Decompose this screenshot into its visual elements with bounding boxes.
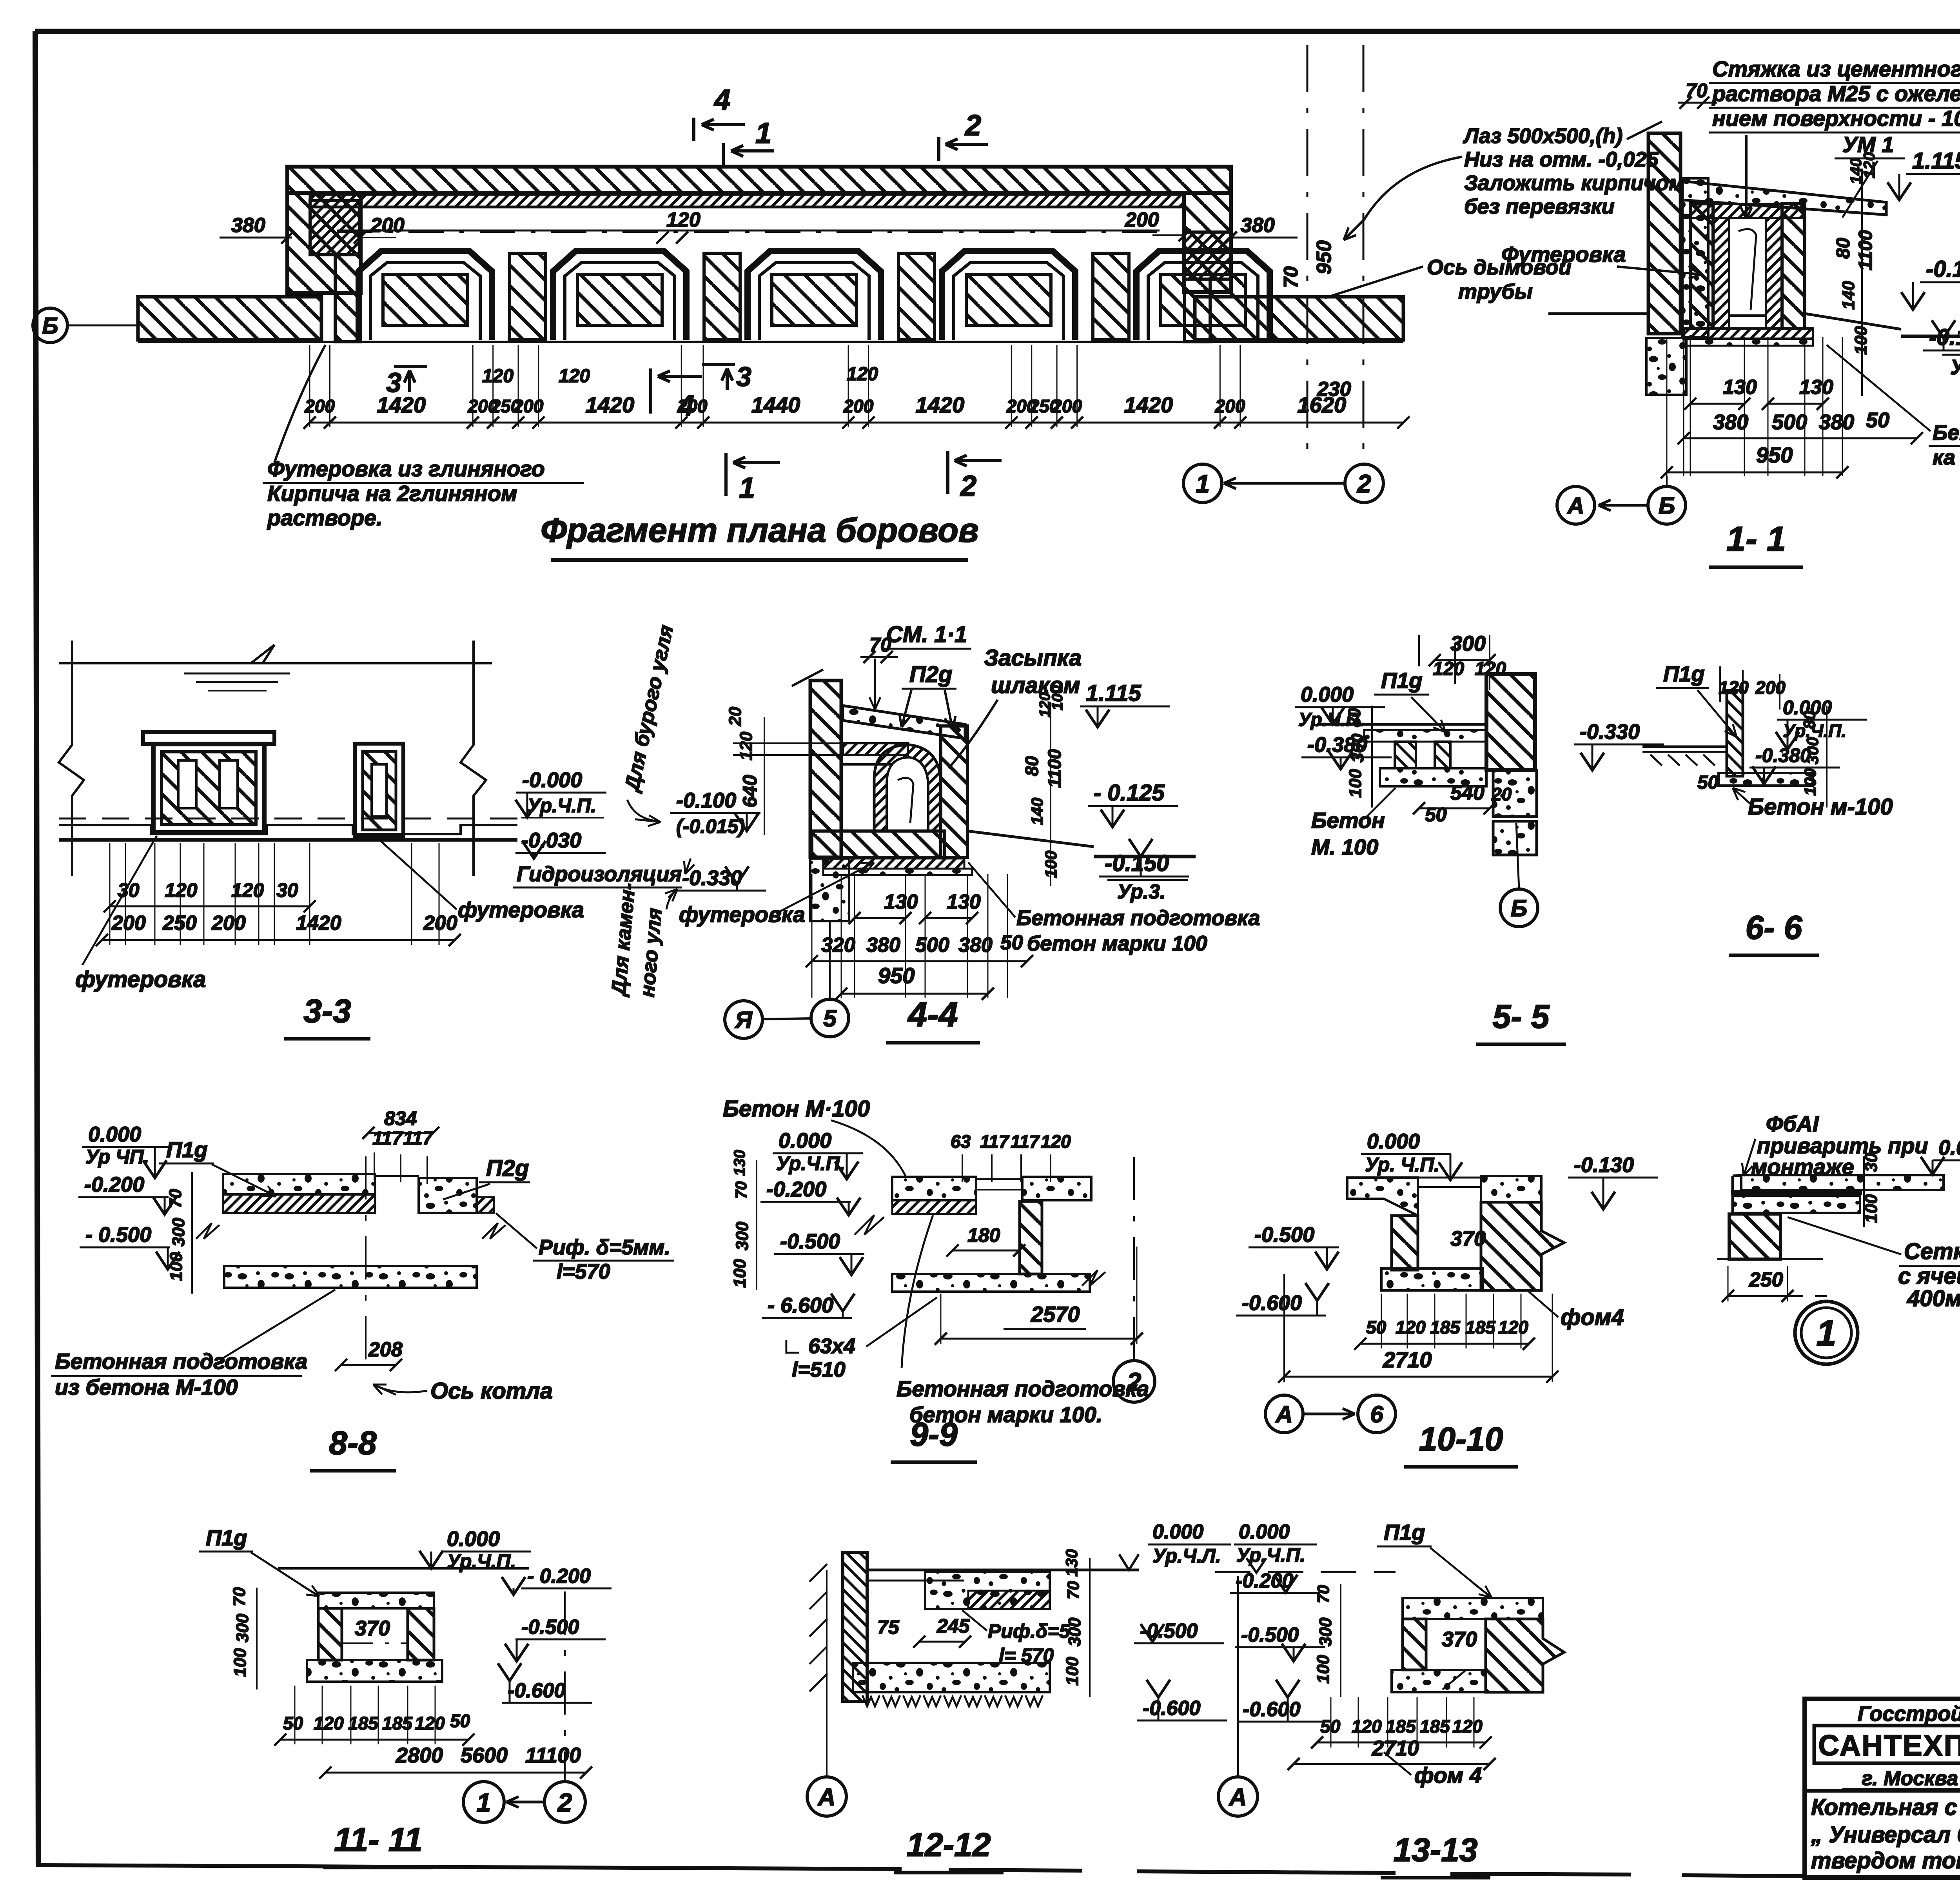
plan: pillar 1 — [510, 253, 546, 340]
svg-text:„ Универсал 6м". на: „ Универсал 6м". на — [1811, 1822, 1960, 1847]
svg-text:120: 120 — [847, 364, 878, 385]
plan: center dash line — [337, 231, 1168, 233]
svg-text:1: 1 — [477, 1788, 491, 1817]
svg-text:1100: 1100 — [1855, 230, 1876, 270]
svg-text:- 0.200: - 0.200 — [527, 1565, 591, 1588]
svg-text:футеровка: футеровка — [75, 967, 206, 992]
svg-text:30: 30 — [1862, 1153, 1881, 1172]
9-9: bottom band — [892, 1274, 1090, 1292]
plan: top slab left leg — [287, 193, 361, 293]
svg-text:80: 80 — [1833, 238, 1854, 259]
13-13: top band — [1403, 1598, 1543, 1619]
detail 1: wall block — [1729, 1214, 1780, 1259]
8-8: kettle axis line — [365, 1156, 367, 1364]
svg-text:370: 370 — [1442, 1628, 1477, 1651]
5-5: under slab — [1380, 768, 1486, 786]
svg-text:1: 1 — [755, 117, 771, 149]
1-1: vertical dim chain — [1861, 169, 1863, 396]
svg-text:120: 120 — [1498, 1317, 1528, 1337]
12-12: top slab — [925, 1572, 1050, 1609]
svg-text:50: 50 — [1425, 804, 1447, 826]
svg-text:380: 380 — [1819, 410, 1854, 434]
svg-text:117: 117 — [372, 1128, 403, 1149]
svg-text:- 0.500: - 0.500 — [85, 1223, 151, 1247]
svg-text:300: 300 — [169, 1218, 188, 1247]
svg-text:300: 300 — [1348, 733, 1367, 762]
svg-text:370: 370 — [355, 1617, 390, 1640]
svg-text:Риф.δ=5: Риф.δ=5 — [988, 1620, 1071, 1642]
svg-text:120: 120 — [1861, 152, 1878, 178]
svg-text:120: 120 — [1352, 1716, 1382, 1737]
plan: corner pier left (dense hatch) — [310, 201, 360, 255]
svg-text:120: 120 — [1041, 1131, 1071, 1152]
9-9: left vertical chain — [756, 1160, 757, 1290]
svg-text:100: 100 — [730, 1259, 750, 1288]
6-6: base slab — [1719, 773, 1813, 786]
svg-text:0.000: 0.000 — [779, 1129, 831, 1152]
svg-text:80: 80 — [1022, 756, 1042, 776]
svg-text:50: 50 — [283, 1713, 303, 1733]
svg-text:САНТЕХПРОЕКТ: САНТЕХПРОЕКТ — [1818, 1729, 1960, 1762]
6-6: right vertical chain — [1826, 706, 1828, 808]
detail 1: circle 1 — [1795, 1301, 1858, 1364]
3-3: big chamber box — [143, 732, 274, 744]
svg-text:раствора М25 с ожелезне-: раствора М25 с ожелезне- — [1711, 81, 1960, 106]
plan: section mark 1 top — [722, 143, 725, 167]
border frame — [35, 29, 1960, 34]
svg-text:117: 117 — [980, 1131, 1010, 1152]
svg-text:300: 300 — [1803, 737, 1822, 764]
svg-text:Бетонная подготовка: Бетонная подготовка — [1016, 906, 1260, 930]
svg-text:Футеровка из глиняного: Футеровка из глиняного — [267, 456, 545, 481]
12-12: wall with ground hatch — [843, 1552, 867, 1701]
4-4: right vertical dim chain — [1050, 702, 1051, 886]
svg-text:Я: Я — [734, 1007, 753, 1033]
plan: flue block 4 — [942, 251, 1075, 340]
svg-text:твердом топливе.: твердом топливе. — [1811, 1848, 1960, 1873]
svg-text:117: 117 — [1011, 1131, 1040, 1152]
svg-text:-0.500: -0.500 — [1241, 1624, 1299, 1646]
svg-text:12-12: 12-12 — [907, 1826, 991, 1863]
svg-text:Кирпича на 2глиняном: Кирпича на 2глиняном — [267, 481, 517, 506]
svg-text:200: 200 — [211, 912, 246, 935]
plan: flue block 2 — [553, 251, 686, 340]
svg-text:75: 75 — [877, 1616, 900, 1638]
svg-text:Ур.Ч.П.: Ур.Ч.П. — [1236, 1544, 1305, 1566]
10-10: top left slab — [1347, 1178, 1418, 1216]
svg-text:120: 120 — [482, 366, 514, 387]
svg-text:100: 100 — [1851, 326, 1871, 355]
svg-text:1420: 1420 — [377, 392, 426, 417]
detail 1: right vertical chain — [1863, 1156, 1865, 1227]
svg-text:Риф. δ=5мм.: Риф. δ=5мм. — [539, 1236, 670, 1259]
svg-text:80: 80 — [1800, 711, 1818, 729]
svg-text:СМ. 1·1: СМ. 1·1 — [886, 622, 967, 647]
5-5: big wall — [1486, 674, 1535, 770]
svg-text:1: 1 — [1196, 470, 1210, 498]
svg-text:20: 20 — [1491, 784, 1512, 804]
svg-text:9-9: 9-9 — [910, 1416, 958, 1453]
svg-text:2710: 2710 — [1372, 1737, 1419, 1760]
svg-text:120: 120 — [666, 209, 701, 231]
svg-text:130: 130 — [1723, 376, 1757, 399]
svg-text:100: 100 — [167, 1252, 186, 1281]
svg-text:П1g: П1g — [1663, 661, 1705, 686]
svg-text:640: 640 — [739, 775, 761, 808]
svg-text:-0.125: -0.125 — [1926, 256, 1960, 282]
svg-text:400мм. По всей длине канала: 400мм. По всей длине канала — [1907, 1286, 1960, 1311]
svg-text:Ур.3: Ур.3 — [1950, 356, 1960, 379]
12-12: top lines — [867, 1569, 1139, 1572]
svg-text:70: 70 — [1064, 1581, 1082, 1599]
svg-text:1440: 1440 — [751, 392, 800, 417]
svg-text:3-3: 3-3 — [303, 993, 351, 1029]
svg-text:-0.500: -0.500 — [780, 1230, 840, 1253]
3-3: small chamber box — [355, 744, 403, 837]
13-13: bottom band — [1392, 1670, 1486, 1692]
4-4: left dim chain — [764, 717, 765, 835]
plan: pillar 4 — [1093, 253, 1129, 340]
9-9: pier — [1020, 1201, 1042, 1274]
8-8: top slab left part — [223, 1174, 375, 1194]
plan: left wall strip of axis Б — [138, 297, 321, 340]
svg-text:100: 100 — [1049, 686, 1066, 710]
4-4: ground lines right — [967, 831, 1094, 847]
8-8: bottom slab band — [224, 1266, 477, 1288]
svg-text:370: 370 — [1450, 1227, 1486, 1250]
4-4: wall — [810, 681, 841, 857]
svg-text:250: 250 — [162, 912, 197, 935]
svg-text:10-10: 10-10 — [1419, 1421, 1503, 1457]
svg-text:1: 1 — [1816, 1313, 1836, 1353]
svg-text:шлаком: шлаком — [991, 673, 1080, 698]
svg-text:- 6.600: - 6.600 — [768, 1294, 833, 1317]
svg-text:П1g: П1g — [166, 1137, 208, 1162]
11-11: bottom band — [307, 1660, 442, 1682]
svg-text:Засыпка: Засыпка — [984, 645, 1082, 671]
svg-text:2: 2 — [964, 109, 981, 142]
svg-text:100: 100 — [1862, 1194, 1881, 1223]
svg-text:30: 30 — [276, 879, 298, 901]
svg-text:футеровка: футеровка — [458, 897, 584, 922]
svg-text:185: 185 — [1465, 1317, 1496, 1337]
svg-text:-0.100: -0.100 — [676, 789, 736, 812]
svg-text:80: 80 — [1345, 708, 1364, 727]
svg-text:Бетон М·100: Бетон М·100 — [723, 1096, 870, 1121]
10-10: right mass — [1481, 1202, 1564, 1290]
4-4: underslab strip — [823, 858, 964, 869]
4-4: arch lining — [874, 745, 941, 831]
svg-text:100: 100 — [1314, 1655, 1333, 1684]
svg-text:50: 50 — [1697, 772, 1719, 793]
svg-text:Ур.Ч.Л.: Ур.Ч.Л. — [1152, 1545, 1221, 1567]
svg-text:300: 300 — [233, 1613, 252, 1642]
svg-text:185: 185 — [1420, 1716, 1450, 1737]
svg-text:4-4: 4-4 — [907, 995, 958, 1034]
title block frame — [1805, 1699, 1960, 1878]
svg-text:1- 1: 1- 1 — [1726, 519, 1786, 558]
1-1: flue lining — [1713, 218, 1729, 328]
svg-text:140: 140 — [1028, 798, 1046, 825]
svg-text:Бетон м-100: Бетон м-100 — [1748, 794, 1893, 820]
svg-text:2: 2 — [557, 1788, 572, 1817]
svg-text:0.000: 0.000 — [88, 1123, 141, 1146]
svg-text:245: 245 — [936, 1615, 970, 1637]
1-1: bottom slab — [1684, 328, 1813, 339]
svg-text:1100: 1100 — [1044, 749, 1065, 788]
plan: section mark 4 top — [692, 118, 695, 141]
svg-text:950: 950 — [1313, 240, 1336, 274]
10-10: right slab — [1481, 1176, 1541, 1202]
plan: inner slab edge line — [337, 230, 1160, 232]
13-13: right mass — [1486, 1619, 1564, 1692]
plan: left leg lower column — [335, 255, 361, 342]
svg-text:Лаз 500х500,(h): Лаз 500х500,(h) — [1463, 124, 1623, 148]
plan: flue block 5 — [1136, 251, 1270, 340]
svg-text:без перевязки: без перевязки — [1464, 195, 1615, 218]
12-12: bottom band — [853, 1663, 1050, 1692]
svg-text:380: 380 — [866, 934, 900, 956]
svg-text:0.000: 0.000 — [1301, 683, 1354, 706]
12-12: right vertical chain — [1089, 1558, 1091, 1697]
svg-text:5- 5: 5- 5 — [1493, 998, 1550, 1035]
5-5: circle Б — [1500, 889, 1538, 927]
svg-text:Бетонная подготовка: Бетонная подготовка — [897, 1376, 1149, 1401]
plan: section mark 1 bottom — [724, 453, 728, 496]
svg-text:Б: Б — [1659, 493, 1675, 519]
svg-text:П1g: П1g — [1381, 668, 1423, 693]
svg-text:2: 2 — [1357, 470, 1371, 498]
svg-text:П2g: П2g — [909, 662, 952, 687]
1-1: chimney wall — [1648, 133, 1681, 334]
svg-text:1.115: 1.115 — [1912, 148, 1960, 174]
svg-text:2: 2 — [1126, 1367, 1142, 1396]
svg-text:120: 120 — [165, 879, 198, 901]
svg-text:фом 4: фом 4 — [1414, 1763, 1482, 1787]
svg-text:Госстрой СССР: Госстрой СССР — [1858, 1702, 1960, 1726]
svg-text:П2g: П2g — [486, 1156, 529, 1181]
4-4: sloped screed — [843, 706, 965, 739]
svg-text:200: 200 — [1755, 677, 1786, 698]
svg-text:540: 540 — [1450, 782, 1485, 804]
11-11: top band — [318, 1593, 434, 1608]
svg-text:380: 380 — [1713, 410, 1748, 434]
svg-text:-0.030: -0.030 — [521, 829, 581, 852]
12-12: ground tufts — [862, 1695, 1043, 1706]
svg-text:l=510: l=510 — [792, 1358, 846, 1381]
svg-text:растворе.: растворе. — [267, 505, 383, 530]
1-1: foundation block — [1646, 338, 1686, 395]
svg-text:П1g: П1g — [206, 1525, 247, 1550]
detail 1: channel slab — [1741, 1175, 1944, 1190]
svg-text:6: 6 — [1370, 1401, 1383, 1428]
svg-text:-0.600: -0.600 — [508, 1679, 566, 1702]
svg-text:8-8: 8-8 — [329, 1425, 377, 1461]
svg-text:с ячейками 100х100 ширчной: с ячейками 100х100 ширчной — [1898, 1263, 1960, 1289]
svg-text:0.000: 0.000 — [1938, 1136, 1960, 1160]
svg-text:Ур.Ч.П.: Ур.Ч.П. — [776, 1152, 845, 1174]
svg-text:100: 100 — [1801, 768, 1819, 796]
svg-text:А: А — [1275, 1401, 1292, 1428]
svg-text:0.000: 0.000 — [447, 1527, 500, 1551]
svg-text:футеровка: футеровка — [679, 902, 805, 927]
plan: section mark 2 top — [937, 137, 940, 161]
svg-text:2800: 2800 — [396, 1744, 443, 1767]
plan: section mark 2 bottom — [946, 451, 949, 494]
plan: flue block 1 — [359, 251, 492, 340]
1-1: flue opening — [1729, 218, 1766, 316]
svg-text:120: 120 — [314, 1713, 344, 1733]
svg-text:1.115: 1.115 — [1086, 681, 1142, 706]
svg-text:130: 130 — [884, 891, 918, 913]
svg-text:320: 320 — [821, 934, 855, 956]
svg-text:3: 3 — [736, 361, 751, 392]
plan: section mark 3 right — [702, 363, 735, 366]
12-12: circle А — [807, 1777, 846, 1816]
svg-text:117: 117 — [403, 1128, 434, 1149]
svg-text:г. Москва 1971г.: г. Москва 1971г. — [1862, 1767, 1960, 1790]
plan: witness lines under blocks — [309, 345, 310, 427]
plan: right wall strip of axis Б — [1195, 297, 1403, 340]
svg-text:- 0.125: - 0.125 — [1094, 780, 1165, 806]
svg-text:-0.500: -0.500 — [1254, 1223, 1314, 1247]
4-4: duct floor — [812, 831, 945, 857]
svg-text:нием поверхности - 10÷50: нием поверхности - 10÷50 — [1712, 106, 1960, 131]
svg-text:Ур.3.: Ур.3. — [1117, 880, 1166, 903]
svg-text:2710: 2710 — [1383, 1347, 1432, 1372]
1-1: sloped screed — [1682, 181, 1886, 215]
5-5: small piers — [1395, 742, 1416, 768]
svg-text:100: 100 — [1346, 769, 1365, 798]
svg-text:300: 300 — [733, 1221, 752, 1250]
svg-text:20: 20 — [726, 707, 745, 726]
svg-text:-0.130: -0.130 — [1574, 1153, 1634, 1177]
svg-text:0.000: 0.000 — [1152, 1521, 1203, 1543]
10-10: bottom band — [1381, 1268, 1483, 1290]
4-4: foundation column — [810, 858, 849, 921]
11-11: circles 1 2 — [463, 1782, 504, 1822]
svg-text:М. 100: М. 100 — [1311, 835, 1378, 859]
8-8: left vertical chain — [191, 1172, 193, 1294]
svg-text:Сетка из арматуры Ф8АІ,: Сетка из арматуры Ф8АІ, — [1904, 1239, 1960, 1264]
svg-text:70: 70 — [230, 1587, 249, 1606]
svg-text:2570: 2570 — [1031, 1302, 1080, 1327]
svg-text:бетон марки 100: бетон марки 100 — [1027, 932, 1207, 955]
svg-text:Низ на отм. -0,025: Низ на отм. -0,025 — [1464, 148, 1659, 171]
8-8: break marks — [196, 1223, 220, 1239]
svg-text:4: 4 — [713, 83, 730, 116]
svg-text:13-13: 13-13 — [1394, 1831, 1478, 1868]
svg-text:-0.600: -0.600 — [1143, 1697, 1201, 1720]
svg-text:70: 70 — [1314, 1585, 1332, 1603]
1-1: witness verticals — [1666, 337, 1668, 476]
svg-text:70: 70 — [733, 1181, 750, 1199]
plan: axis circle Б — [33, 308, 67, 343]
9-9: top slab — [892, 1177, 976, 1200]
13-13: left vertical chain — [1340, 1584, 1341, 1697]
svg-text:185: 185 — [1386, 1716, 1416, 1737]
svg-text:180: 180 — [967, 1224, 1000, 1246]
svg-text:120: 120 — [1452, 1716, 1483, 1737]
3-3: top water line — [59, 662, 492, 664]
svg-text:ка бетон марки·100.: ка бетон марки·100. — [1933, 446, 1960, 469]
svg-text:Б: Б — [42, 313, 58, 339]
svg-text:140: 140 — [1839, 281, 1858, 310]
svg-text:Гидроизоляция: Гидроизоляция — [517, 862, 682, 886]
svg-text:Ось котла: Ось котла — [430, 1378, 553, 1404]
1-1: underslab strip — [1684, 339, 1813, 346]
9-9: circle 2 — [1113, 1361, 1155, 1402]
10-10: left pier — [1392, 1216, 1418, 1270]
svg-text:100: 100 — [1042, 851, 1060, 878]
10-10: channel top lines — [1418, 1177, 1481, 1179]
plan: flue block 3 — [748, 251, 881, 340]
svg-text:50: 50 — [1366, 1317, 1387, 1337]
svg-text:200: 200 — [423, 912, 457, 935]
1-1: flue top band — [1690, 204, 1805, 218]
plan: pillar 3 — [898, 253, 935, 340]
5-5: concrete column — [1493, 770, 1537, 817]
svg-text:0.000: 0.000 — [1367, 1130, 1420, 1153]
11-11: left vertical chain — [256, 1588, 258, 1689]
svg-text:-0.500: -0.500 — [521, 1616, 579, 1639]
svg-text:70: 70 — [1280, 266, 1302, 288]
svg-text:130: 130 — [947, 891, 981, 913]
svg-text:11- 11: 11- 11 — [334, 1821, 423, 1858]
svg-text:50: 50 — [1000, 931, 1023, 954]
8-8: top slab right part — [419, 1178, 477, 1213]
plan: pillar 2 — [704, 253, 740, 340]
10-10: axis circles — [1265, 1395, 1303, 1433]
svg-text:Футеровка: Футеровка — [1501, 242, 1626, 267]
svg-text:1: 1 — [739, 472, 755, 504]
plan: axis line — [138, 341, 1403, 343]
svg-text:-0.500: -0.500 — [1140, 1620, 1198, 1642]
5-5: floor slab — [1317, 723, 1486, 726]
svg-text:100: 100 — [230, 1648, 250, 1677]
svg-text:Фрагмент плана боровов: Фрагмент плана боровов — [541, 512, 979, 549]
4-4: right outer wall — [941, 726, 967, 857]
plan: section mark 4 bottom — [649, 368, 652, 414]
svg-text:200: 200 — [111, 912, 146, 935]
svg-text:-0.200: -0.200 — [766, 1178, 826, 1201]
svg-text:Бетон: Бетон — [1311, 808, 1385, 833]
svg-text:1420: 1420 — [586, 392, 635, 417]
5-5: left vertical chain — [1371, 706, 1373, 808]
svg-text:120: 120 — [737, 731, 756, 760]
svg-text:5: 5 — [823, 1005, 837, 1032]
svg-text:200: 200 — [370, 214, 405, 237]
1-1: flue duct outer walls — [1690, 204, 1713, 328]
svg-text:2: 2 — [960, 470, 976, 502]
svg-text:300: 300 — [1316, 1617, 1335, 1646]
svg-text:120: 120 — [415, 1713, 445, 1733]
svg-text:950: 950 — [1756, 443, 1793, 467]
svg-text:l=570: l=570 — [557, 1260, 610, 1283]
svg-text:1420: 1420 — [1124, 392, 1173, 417]
svg-text:63: 63 — [951, 1131, 971, 1152]
11-11: dash axis to circle 2 — [564, 1591, 566, 1780]
svg-text:А: А — [1566, 493, 1584, 519]
svg-text:П1g: П1g — [1384, 1520, 1425, 1544]
svg-text:Бетонная подготов-: Бетонная подготов- — [1933, 421, 1960, 445]
svg-text:208: 208 — [368, 1338, 403, 1361]
svg-text:-0.380: -0.380 — [1755, 744, 1811, 766]
6-6: ground at left — [1642, 746, 1727, 748]
svg-text:1420: 1420 — [296, 912, 341, 935]
svg-text:Ур ЧП.: Ур ЧП. — [85, 1146, 149, 1168]
4-4: upper thin band — [843, 743, 908, 755]
